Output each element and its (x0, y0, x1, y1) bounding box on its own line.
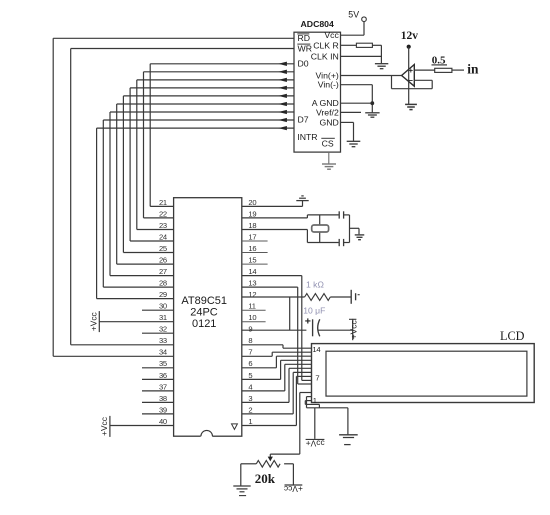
svg-text:1: 1 (248, 417, 252, 426)
svg-text:32: 32 (159, 325, 167, 334)
svg-text:+: + (409, 66, 414, 75)
svg-text:Vref/2: Vref/2 (316, 107, 339, 117)
svg-text:28: 28 (159, 279, 167, 288)
svg-text:25: 25 (159, 244, 167, 253)
svg-text:20: 20 (248, 198, 256, 207)
svg-text:7: 7 (248, 348, 252, 357)
svg-text:3: 3 (248, 394, 252, 403)
svg-text:18: 18 (248, 221, 256, 230)
svg-text:15: 15 (248, 256, 256, 265)
svg-text:20k: 20k (255, 471, 276, 486)
svg-text:CLK IN: CLK IN (311, 51, 339, 61)
svg-text:−: − (409, 76, 414, 85)
svg-text:35: 35 (159, 359, 167, 368)
svg-text:24PC: 24PC (190, 307, 218, 319)
svg-text:14: 14 (312, 345, 320, 354)
svg-text:34: 34 (159, 348, 167, 357)
svg-text:26: 26 (159, 256, 167, 265)
svg-text:19: 19 (248, 209, 256, 218)
svg-text:AT89C51: AT89C51 (181, 295, 227, 307)
svg-text:+Vcc: +Vcc (89, 312, 99, 331)
svg-text:6: 6 (248, 359, 252, 368)
svg-text:12: 12 (248, 290, 256, 299)
svg-text:10: 10 (248, 313, 256, 322)
svg-text:38: 38 (159, 394, 167, 403)
svg-text:RD: RD (298, 33, 311, 43)
svg-text:Vin(-): Vin(-) (318, 80, 339, 90)
svg-text:33: 33 (159, 336, 167, 345)
svg-text:40: 40 (159, 417, 167, 426)
svg-text:in: in (467, 62, 479, 77)
svg-text:29: 29 (159, 290, 167, 299)
svg-text:Vcc: Vcc (324, 30, 339, 40)
svg-text:5V: 5V (348, 10, 359, 20)
svg-text:39: 39 (159, 405, 167, 414)
svg-text:8: 8 (248, 336, 252, 345)
svg-text:+: + (305, 316, 311, 328)
svg-text:D0: D0 (298, 59, 309, 69)
svg-text:1 kΩ: 1 kΩ (306, 279, 324, 289)
svg-text:36: 36 (159, 371, 167, 380)
svg-text:27: 27 (159, 267, 167, 276)
svg-text:+Vcc: +Vcc (284, 484, 303, 494)
svg-text:4: 4 (248, 382, 252, 391)
svg-text:CLK R: CLK R (313, 40, 339, 50)
svg-text:11: 11 (248, 302, 255, 311)
svg-text:30: 30 (159, 302, 167, 311)
svg-text:GND: GND (319, 117, 338, 127)
svg-text:ADC804: ADC804 (301, 19, 334, 29)
svg-text:17: 17 (248, 232, 256, 241)
svg-text:31: 31 (159, 313, 167, 322)
svg-text:37: 37 (159, 382, 167, 391)
svg-text:14: 14 (248, 267, 256, 276)
svg-text:5: 5 (248, 371, 252, 380)
svg-text:2: 2 (248, 405, 252, 414)
svg-text:10 μF: 10 μF (303, 306, 325, 316)
svg-text:+Vcc: +Vcc (99, 417, 109, 436)
svg-text:16: 16 (248, 244, 256, 253)
svg-text:LCD: LCD (500, 329, 525, 343)
svg-text:1: 1 (313, 396, 317, 405)
svg-text:9: 9 (248, 325, 252, 334)
svg-text:INTR: INTR (297, 132, 317, 142)
svg-text:D7: D7 (298, 115, 309, 125)
svg-text:23: 23 (159, 221, 167, 230)
svg-text:7: 7 (315, 373, 319, 382)
svg-text:24: 24 (159, 232, 167, 241)
svg-text:CS: CS (322, 138, 334, 148)
svg-text:+Vcc: +Vcc (349, 320, 359, 339)
svg-text:+Vcc: +Vcc (306, 438, 325, 448)
svg-text:22: 22 (159, 209, 167, 218)
svg-text:21: 21 (159, 198, 167, 207)
svg-text:12v: 12v (401, 30, 419, 42)
svg-text:0121: 0121 (192, 318, 216, 330)
svg-text:13: 13 (248, 279, 256, 288)
